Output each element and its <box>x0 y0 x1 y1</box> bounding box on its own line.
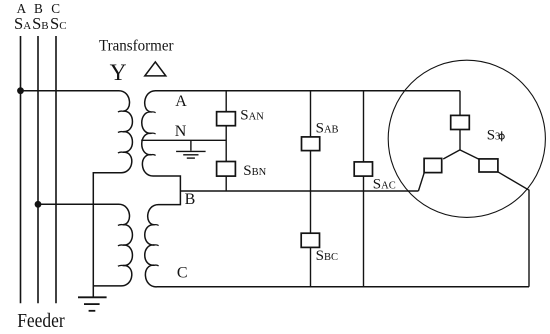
svg-text:B: B <box>185 191 196 208</box>
svg-text:Feeder: Feeder <box>17 311 65 332</box>
wire load phase A drop <box>459 91 461 150</box>
switch SBC label <box>316 248 338 264</box>
switch SAN label <box>240 108 264 124</box>
junction dot on feeder B <box>35 201 42 208</box>
wire load right lower leg down to phase C <box>498 172 529 287</box>
load switch top box <box>451 115 470 129</box>
node C label <box>177 265 188 282</box>
wire neutral N tap <box>141 139 226 141</box>
secondary winding S1 (A-N) + phase A line + B terminal + secondary winding S2 (C) + phase C line <box>142 91 529 287</box>
load circle outline <box>388 60 545 217</box>
wire feeder phase C vertical <box>55 36 57 303</box>
node A secondary label <box>175 93 187 110</box>
svg-text:C: C <box>177 265 188 282</box>
svg-text:A: A <box>175 93 187 110</box>
node N label <box>175 123 187 140</box>
wire load left upper leg <box>443 150 460 159</box>
wire branch SAB-SBC vertical <box>310 90 312 287</box>
switch SAC box <box>354 162 372 176</box>
coil cusp tails secondary windings <box>151 112 158 266</box>
switch SAB label <box>316 121 339 137</box>
node B feeder phase label <box>34 1 43 16</box>
wire feeder phase A vertical <box>20 36 22 303</box>
switch SAB box <box>302 137 320 151</box>
primary winding P2 with tap line from feeder B <box>38 204 132 286</box>
source SB label <box>32 14 49 33</box>
node A feeder phase label <box>17 1 27 16</box>
switch SBN label <box>243 163 266 179</box>
svg-text:Transformer: Transformer <box>99 38 174 55</box>
Y (wye) symbol <box>110 60 127 86</box>
node B label <box>185 191 196 208</box>
svg-text:N: N <box>175 123 187 140</box>
load switch right box <box>479 159 498 172</box>
switch SBC box <box>301 233 319 247</box>
load switch left box <box>424 158 442 172</box>
ground neutral N <box>176 140 206 158</box>
switch SAN box <box>217 112 236 126</box>
wire phase B horizontal <box>181 190 419 192</box>
primary winding P1 with tap line from feeder A and neutral return wire <box>21 91 133 297</box>
wire feeder phase B vertical <box>37 36 39 303</box>
svg-text:Y: Y <box>110 60 127 86</box>
wire branch SAC vertical <box>363 90 365 287</box>
node C feeder phase label <box>51 1 60 16</box>
delta symbol <box>145 62 166 76</box>
switch SAC label <box>373 177 396 193</box>
junction dot on feeder A <box>17 87 24 94</box>
wire load left lower leg to phase B end <box>418 172 424 191</box>
phi symbol of S3phi <box>499 131 504 141</box>
source SA label <box>14 14 31 33</box>
wire load right upper leg <box>460 150 479 159</box>
coil cusp tails primary windings <box>118 111 123 266</box>
wire branch SAN-SBN vertical <box>225 91 227 191</box>
source SC label <box>50 14 67 33</box>
Transformer label <box>99 38 174 55</box>
Feeder label <box>17 311 65 332</box>
ground primary neutral <box>78 297 107 311</box>
switch SBN box <box>217 162 236 177</box>
load S3phi label <box>487 127 501 143</box>
